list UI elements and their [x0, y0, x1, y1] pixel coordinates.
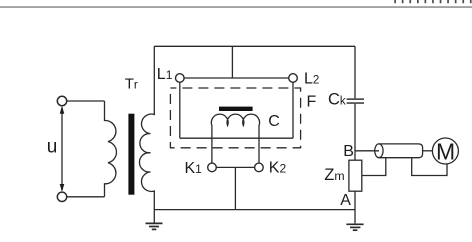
sensing coil K — [211, 114, 259, 163]
cable body — [379, 144, 423, 158]
shield box F dashed — [170, 88, 300, 148]
wire center tap top — [231, 46, 233, 78]
motor M circle — [432, 138, 458, 164]
wire inner bottom — [180, 137, 293, 139]
wire right edge upper (to Ck) — [354, 46, 356, 98]
wire top edge — [154, 45, 355, 47]
svg-text:K1: K1 — [185, 160, 203, 177]
terminal top of source u — [57, 96, 66, 105]
wire node B to cable — [355, 150, 379, 152]
terminal bottom of source u — [57, 192, 66, 201]
terminal K2 — [255, 163, 264, 172]
svg-text:C: C — [268, 113, 280, 130]
svg-text:F: F — [307, 93, 317, 110]
transformer secondary winding — [139, 46, 154, 209]
terminal L2 — [289, 74, 298, 83]
wire bottom edge — [154, 209, 355, 211]
terminal L1 — [176, 74, 185, 83]
svg-text:L1: L1 — [157, 66, 173, 83]
wire K tap to bottom — [234, 167, 236, 209]
wire right edge (Ck to Zm) — [354, 104, 356, 160]
arrow of source u — [60, 106, 65, 192]
wire K1 to K2 — [216, 166, 254, 168]
impedance box Zm — [349, 160, 362, 191]
transformer primary winding — [105, 101, 117, 197]
wire source top to primary — [67, 100, 105, 102]
transformer core — [128, 114, 134, 195]
svg-text:B: B — [343, 143, 354, 160]
ground left — [146, 210, 163, 230]
wire below L1 — [179, 82, 181, 138]
svg-text:A: A — [340, 192, 351, 209]
page rule — [0, 6, 472, 8]
svg-text:K2: K2 — [269, 159, 287, 176]
capacitor C plate — [219, 107, 253, 111]
wire cable shield to Zm — [362, 158, 386, 176]
wire Zm to ground — [354, 191, 356, 223]
svg-text:M: M — [436, 138, 455, 164]
wire cable to motor — [423, 150, 433, 152]
wire below L2 — [292, 82, 294, 138]
wire source bottom to primary — [67, 196, 105, 198]
wire L1 to L2 — [184, 77, 289, 79]
svg-text:Tr: Tr — [125, 75, 138, 92]
ground right — [346, 224, 363, 230]
terminal K1 — [208, 163, 217, 172]
capacitor Ck plates — [347, 98, 364, 104]
svg-text:u: u — [47, 136, 58, 157]
cable end ellipse — [375, 144, 383, 158]
wire cable shield to motor body — [412, 158, 447, 176]
